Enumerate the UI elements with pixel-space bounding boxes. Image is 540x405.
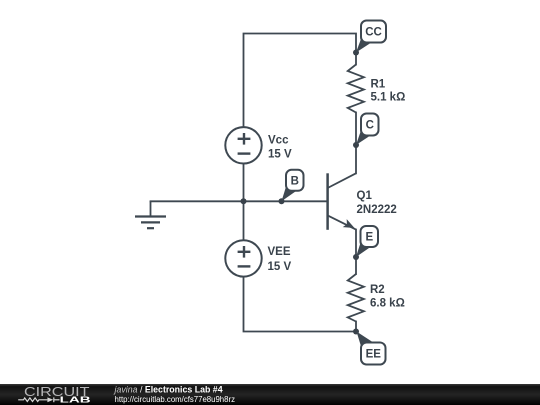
svg-text:LAB: LAB xyxy=(60,395,91,404)
wire VEE bottom to bottom rail xyxy=(244,277,357,332)
svg-text:CC: CC xyxy=(365,27,382,39)
junction dot B xyxy=(279,198,285,204)
voltage source V1 Vcc xyxy=(225,127,261,163)
CircuitLab logo squiggle xyxy=(18,397,59,402)
node C flag xyxy=(356,114,379,146)
svg-text:15 V: 15 V xyxy=(268,261,292,273)
svg-text:http://circuitlab.com/cfs77e8u: http://circuitlab.com/cfs77e8u9h8rz xyxy=(115,395,236,404)
node CC flag xyxy=(356,21,386,53)
svg-text:6.8 kΩ: 6.8 kΩ xyxy=(370,298,405,310)
wire CC node to R1 top xyxy=(355,53,357,65)
node B flag xyxy=(282,170,304,202)
svg-text:Q1: Q1 xyxy=(357,190,373,202)
svg-text:2N2222: 2N2222 xyxy=(357,204,397,216)
label R2 6.8 kOhm xyxy=(370,284,405,310)
wire base horizontal from ground to Q1 base xyxy=(151,200,328,202)
node E flag xyxy=(356,226,378,257)
svg-text:15 V: 15 V xyxy=(268,148,292,160)
label Vcc 15 V xyxy=(268,134,292,160)
svg-text:C: C xyxy=(366,120,374,132)
junction dot C xyxy=(353,142,359,148)
svg-text:5.1 kΩ: 5.1 kΩ xyxy=(371,92,406,104)
svg-text:VEE: VEE xyxy=(268,246,291,258)
svg-text:E: E xyxy=(365,232,373,244)
svg-text:R1: R1 xyxy=(371,79,386,91)
resistor R2 xyxy=(348,274,364,322)
footer black bar xyxy=(0,384,540,405)
junction dot CC xyxy=(353,50,359,56)
label VEE 15 V xyxy=(268,246,292,273)
wire C node to Q1 collector xyxy=(355,145,357,173)
emitter arrow of Q1 xyxy=(343,219,355,228)
svg-text:Vcc: Vcc xyxy=(268,134,289,146)
svg-text:javina / Electronics Lab #4: javina / Electronics Lab #4 xyxy=(114,385,223,395)
ground xyxy=(135,201,166,228)
svg-text:B: B xyxy=(291,176,299,188)
label Q1 2N2222 xyxy=(357,190,397,216)
svg-text:R2: R2 xyxy=(370,284,385,296)
wire R1 bottom to C node xyxy=(355,113,357,146)
node EE flag xyxy=(357,332,386,365)
wire center junction to VEE top xyxy=(243,201,245,240)
wire Vcc bottom to center junction xyxy=(243,164,245,201)
resistor R1 xyxy=(348,65,364,113)
wire R2 bottom to EE node xyxy=(355,322,357,332)
wire top horizontal from left branch to collector branch xyxy=(244,34,357,127)
transistor Q1 2N2222 xyxy=(328,173,356,230)
svg-text:EE: EE xyxy=(366,349,382,361)
voltage source V2 VEE xyxy=(225,240,261,276)
wire E node to R2 top xyxy=(355,257,357,274)
wire Q1 emitter to E node xyxy=(355,230,357,257)
label R1 5.1 kOhm xyxy=(371,79,406,104)
CircuitLab logo diode triangle xyxy=(47,397,53,402)
junction dot E xyxy=(353,254,359,260)
junction dot center xyxy=(241,198,247,204)
junction dot EE xyxy=(353,329,359,335)
